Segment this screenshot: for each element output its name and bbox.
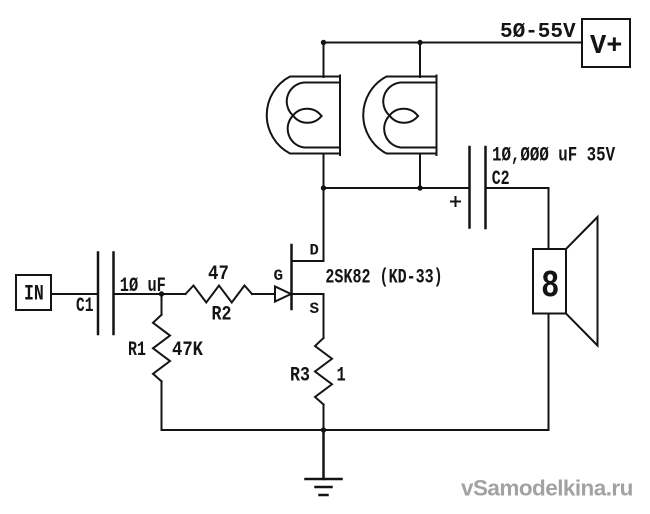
- svg-text:1: 1: [337, 365, 346, 388]
- C2 polarity plus sign: [451, 197, 460, 206]
- IN input box: [16, 275, 51, 310]
- wire R1 top lead: [161, 294, 163, 315]
- svg-text:IN: IN: [24, 281, 44, 306]
- inductor L2: [363, 76, 436, 156]
- svg-text:D: D: [310, 242, 319, 260]
- svg-text:2SK82 (KD-33): 2SK82 (KD-33): [325, 267, 442, 290]
- transistor Q1 gate arrow: [275, 287, 291, 302]
- ground symbol: [306, 430, 342, 495]
- svg-text:5Ø-55V: 5Ø-55V: [500, 21, 576, 44]
- label 2SK82 (KD-33): [325, 267, 442, 290]
- capacitor C2 plates: [470, 147, 486, 228]
- wire L1 top lead: [323, 43, 325, 78]
- V+ power box: [582, 19, 630, 67]
- label 10,000 uF 35V: [492, 145, 615, 167]
- svg-text:S: S: [310, 300, 320, 318]
- inductor L1: [267, 76, 340, 156]
- svg-text:8: 8: [541, 265, 559, 308]
- svg-text:C2: C2: [492, 168, 510, 191]
- node input junction C1/R1/R2: [159, 291, 164, 296]
- label 1: [337, 365, 346, 388]
- svg-text:47K: 47K: [172, 338, 204, 362]
- wire C2 to speaker: [486, 188, 549, 249]
- transistor Q1 source line: [292, 293, 324, 295]
- label 47K: [172, 338, 204, 362]
- wire R1 to bottom rail: [161, 381, 163, 430]
- label R1: [128, 339, 146, 362]
- resistor R3 zigzag: [315, 338, 332, 405]
- label IN: [24, 281, 44, 306]
- svg-text:47: 47: [208, 262, 229, 286]
- svg-text:V+: V+: [590, 32, 622, 62]
- node junction top rail L1: [321, 40, 326, 45]
- svg-text:G: G: [274, 267, 284, 285]
- wire R3 to bottom rail: [323, 405, 325, 431]
- node junction mid rail L1/drain: [321, 185, 326, 190]
- resistor R2 zigzag: [186, 286, 253, 303]
- capacitor C1 plates: [98, 253, 114, 335]
- svg-text:R2: R2: [212, 302, 232, 326]
- label 10 uF: [120, 275, 166, 298]
- wire L2 bottom lead: [419, 154, 421, 189]
- wire drain lead: [323, 188, 325, 261]
- label 8 speaker impedance: [541, 265, 559, 308]
- svg-text:R1: R1: [128, 339, 146, 362]
- wire L1 bottom lead: [323, 154, 325, 189]
- label R2: [212, 302, 232, 326]
- svg-text:1Ø,ØØØ uF 35V: 1Ø,ØØØ uF 35V: [492, 145, 615, 167]
- svg-text:C1: C1: [76, 295, 93, 318]
- wire IN to C1: [51, 293, 98, 295]
- wire bottom ground rail: [162, 429, 549, 431]
- wire mid rail to C2: [324, 187, 470, 189]
- wire C1 to input node and R2: [114, 293, 186, 295]
- resistor R1 zigzag: [153, 315, 170, 382]
- node ground junction: [321, 427, 326, 432]
- label C2: [492, 168, 510, 191]
- label 47: [208, 262, 229, 286]
- node junction top rail L2: [417, 40, 422, 45]
- node junction mid rail L2: [417, 185, 422, 190]
- speaker LS1: [533, 217, 598, 346]
- wire R2 to gate: [252, 293, 275, 295]
- svg-text:R3: R3: [290, 363, 310, 387]
- wire L2 top lead: [419, 43, 421, 78]
- label C1: [76, 295, 93, 318]
- transistor Q1 vertical bar: [290, 245, 293, 309]
- wire speaker to bottom rail: [548, 314, 550, 431]
- wire top supply rail: [324, 42, 583, 44]
- label R3: [290, 363, 310, 387]
- svg-text:vSamodelkina.ru: vSamodelkina.ru: [461, 476, 633, 501]
- wire source lead: [323, 294, 325, 338]
- transistor Q1 drain line: [292, 260, 324, 262]
